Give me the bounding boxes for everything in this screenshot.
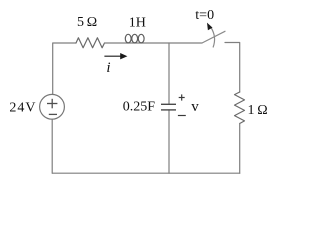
svg-text:0.25F: 0.25F xyxy=(123,99,156,114)
svg-text:v: v xyxy=(191,99,199,115)
svg-text:24V: 24V xyxy=(9,101,36,116)
svg-text:t=0: t=0 xyxy=(195,8,214,23)
svg-text:i: i xyxy=(106,60,110,76)
svg-text:5 Ω: 5 Ω xyxy=(77,15,97,30)
svg-text:1H: 1H xyxy=(129,16,146,31)
svg-text:1 Ω: 1 Ω xyxy=(248,103,268,118)
